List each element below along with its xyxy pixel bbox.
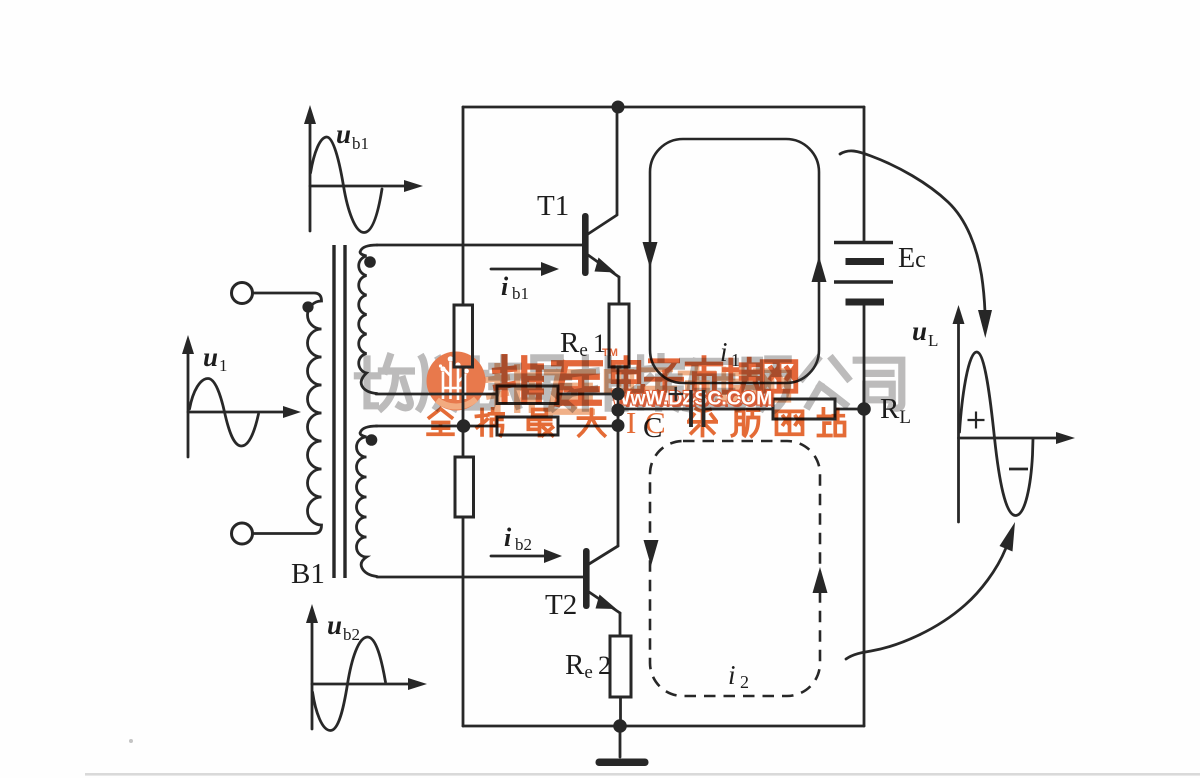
node junction lower <box>612 419 625 432</box>
wire left rail lower (to bottom rail) <box>462 517 465 726</box>
terminal input bottom <box>232 523 253 544</box>
resistor Re1 <box>609 304 629 367</box>
waveform ub1 <box>304 105 423 233</box>
svg-text:u: u <box>912 316 927 346</box>
wire secondary1 bottom lead <box>376 393 497 396</box>
node secondary1 polarity dot <box>364 256 376 268</box>
node center tap junction <box>457 419 471 433</box>
wire left rail upper (supply to base line) <box>462 107 465 305</box>
svg-text:u: u <box>336 119 351 149</box>
svg-text:i: i <box>501 272 509 301</box>
node junction middle C <box>612 404 625 417</box>
transistor T1 <box>582 213 619 304</box>
wire bottom rail <box>463 725 864 728</box>
node junction upper <box>612 388 625 401</box>
waveform uL output <box>953 305 1076 522</box>
svg-text:u: u <box>327 610 342 640</box>
battery Ec <box>834 243 893 303</box>
echo copies of big brand text <box>488 366 789 413</box>
node secondary2 polarity dot <box>366 434 378 446</box>
transistor T2 <box>583 546 620 636</box>
wire lower resistor to node <box>558 425 618 428</box>
wire RL to right rail <box>835 408 864 411</box>
wire left rail middle (bias resistor to center tap) <box>462 367 465 457</box>
transformer B1 primary winding <box>253 293 322 534</box>
svg-text:1: 1 <box>219 356 228 375</box>
wire upper resistor to node <box>558 393 618 396</box>
node primary polarity dot <box>302 301 313 312</box>
svg-text:B1: B1 <box>291 558 325 590</box>
svg-text:Ec: Ec <box>898 243 926 274</box>
capacitor C plates <box>691 390 704 427</box>
wire Re2 to bottom rail <box>619 697 622 726</box>
svg-text:T1: T1 <box>537 190 569 222</box>
svg-text:i: i <box>728 660 736 690</box>
svg-text:u: u <box>203 342 218 372</box>
resistor bias lower <box>455 457 474 517</box>
waveform u1 <box>182 335 301 457</box>
transformer secondary 2 winding <box>357 426 378 577</box>
svg-text:b2: b2 <box>343 625 360 644</box>
resistor RL <box>773 399 835 419</box>
resistor bias upper <box>454 305 473 367</box>
wire capacitor to RL <box>705 408 773 411</box>
svg-text:b2: b2 <box>515 535 532 554</box>
resistor Re2 <box>610 636 631 697</box>
transformer core <box>334 245 345 578</box>
label capacitor plus <box>669 387 684 401</box>
arrow ib1 <box>491 262 559 276</box>
scan artifact bottom edge <box>85 773 1200 776</box>
resistor horizontal upper <box>497 386 558 404</box>
node A top junction (T1 collector on supply rail) <box>612 101 625 114</box>
svg-text:i: i <box>504 523 512 552</box>
bottom slogan row <box>428 409 844 436</box>
watermark logo disc <box>427 352 486 411</box>
wire node to capacitor <box>618 408 689 411</box>
big brand text main <box>495 357 600 404</box>
node RL right junction <box>857 402 871 416</box>
wire top supply rail <box>463 106 864 109</box>
wire T1 base line <box>377 244 582 247</box>
wire secondary2 top lead (center tap) <box>376 425 497 428</box>
ground <box>596 726 649 766</box>
wire T2 base line <box>377 576 583 579</box>
scan artifact small mark <box>129 739 133 743</box>
waveform ub2 <box>306 604 427 731</box>
resistor horizontal lower <box>497 417 558 435</box>
wire T1 collector vertical <box>616 107 619 214</box>
current loop i1 <box>643 139 827 383</box>
wire right rail lower (battery to bottom rail) <box>863 304 866 726</box>
watermark orange text layer <box>428 347 844 440</box>
arrow ib2 <box>491 549 562 563</box>
svg-text:TM: TM <box>602 347 618 359</box>
arrow curve top (Ec to output plus) <box>840 151 992 338</box>
transformer secondary 1 winding <box>359 245 377 394</box>
current loop i2 (dashed) <box>644 441 828 696</box>
wire node C vertical (Re1 to T2 collector) <box>617 367 620 546</box>
wire right rail upper (top rail to battery) <box>863 107 866 241</box>
arrow curve bottom (i2 to output minus) <box>846 522 1015 659</box>
svg-text:b1: b1 <box>352 134 369 153</box>
watermark gray company text layer <box>357 357 901 410</box>
node ground junction <box>613 719 627 733</box>
overlay redraw of capacitor plates over watermark <box>612 387 704 427</box>
svg-text:b1: b1 <box>512 284 529 303</box>
svg-text:2: 2 <box>740 672 749 692</box>
watermark www url text <box>612 388 775 413</box>
terminal input top <box>232 283 253 304</box>
svg-text:T2: T2 <box>545 589 577 621</box>
svg-text:L: L <box>928 331 938 350</box>
